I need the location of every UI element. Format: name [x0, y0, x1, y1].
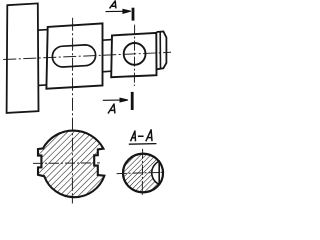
- wire neck1 top: [38, 29, 48, 32]
- node small circle outline redraw: [123, 154, 163, 193]
- node label A top: [110, 1, 116, 8]
- wire A-A underline: [129, 143, 157, 146]
- wire: vertical centerline slot/section: [71, 18, 73, 204]
- node cutting tick bottom: [131, 92, 134, 110]
- node label A bottom: [108, 104, 115, 114]
- node arrow bottom: [103, 98, 128, 102]
- wire neck1 bottom: [38, 84, 46, 87]
- node cutting tick top: [132, 8, 135, 21]
- wire small section horizontal centerline: [117, 172, 165, 173]
- wire cap inner edge: [159, 32, 161, 69]
- wire: vertical centerline hole circle: [133, 25, 135, 86]
- wire: main horizontal centerline: [3, 52, 171, 59]
- node label A-A: [131, 130, 153, 142]
- node block2: [111, 33, 156, 77]
- wire big section horizontal centerline: [33, 162, 100, 165]
- node small section circle: [123, 154, 163, 193]
- node arrow top: [106, 9, 131, 13]
- node hole segment white: [159, 161, 163, 184]
- node countersink lens: [152, 161, 159, 184]
- wire neck2 bottom: [103, 70, 112, 73]
- node hole circle: [124, 43, 146, 65]
- wire neck2 top: [103, 39, 113, 42]
- wire small section vertical centerline: [141, 149, 143, 196]
- node cap: [157, 32, 167, 70]
- node big section outline: [38, 131, 104, 198]
- node big block: [46, 23, 102, 88]
- node slot: [52, 45, 95, 67]
- node flange: [7, 3, 39, 113]
